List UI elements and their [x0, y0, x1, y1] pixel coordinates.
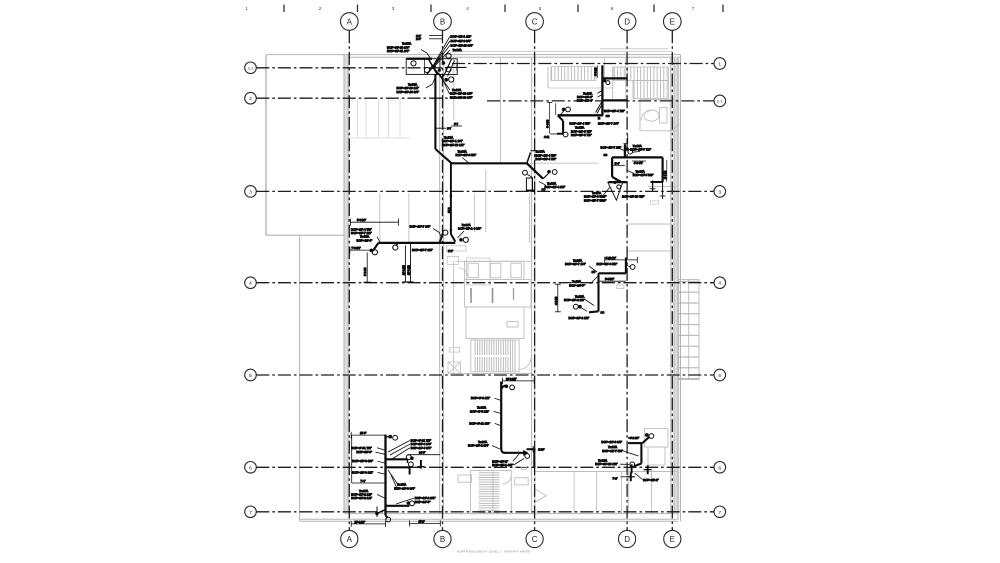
dim left vertical — [557, 284, 559, 312]
stair flight east outline — [613, 67, 669, 81]
dim 14-3 — [408, 454, 441, 456]
bubble 2 left — [245, 92, 257, 104]
svg-text:BOP=10'-2 1/2": BOP=10'-2 1/2" — [351, 496, 372, 500]
door arc — [668, 121, 678, 131]
svg-text:4'-11: 4'-11 — [544, 136, 550, 139]
bracket 6-4 — [612, 164, 625, 166]
partition right rows5 bottom — [535, 471, 678, 473]
bubble 6 right — [714, 462, 726, 474]
bubble 5 right — [714, 369, 726, 381]
svg-text:BOP=10'-7 1/4": BOP=10'-7 1/4" — [565, 262, 586, 266]
svg-text:6'-4 3/8: 6'-4 3/8 — [547, 119, 550, 128]
grid column D — [626, 30, 628, 530]
bottom circle — [630, 462, 635, 467]
leader twin a — [596, 102, 602, 113]
fixture circle m — [393, 245, 398, 250]
main manifold — [378, 242, 455, 244]
dim vertical — [366, 253, 368, 283]
dim 7-4 line — [352, 482, 386, 484]
svg-text:BOP=15'-5 5/8": BOP=15'-5 5/8" — [633, 173, 654, 177]
chase rect — [526, 178, 532, 190]
tag box — [617, 285, 624, 289]
drop diagonal — [527, 163, 543, 178]
bubble A bottom — [341, 530, 358, 547]
svg-text:BOP=10'-9": BOP=10'-9" — [356, 450, 372, 454]
dim left tick a — [555, 283, 561, 285]
stair wall under west flight — [548, 87, 613, 89]
wall column C line west — [531, 57, 533, 514]
top horizontal — [628, 442, 642, 444]
junction diag a — [427, 58, 440, 74]
room tag box upper — [446, 246, 466, 251]
fire escape outline — [679, 280, 700, 380]
leader 1 — [495, 398, 501, 400]
svg-text:BOP=8'-3 1/2": BOP=8'-3 1/2" — [471, 396, 490, 400]
bubble A top — [341, 13, 359, 31]
storage tag above — [450, 348, 460, 353]
svg-text:E: E — [670, 535, 675, 544]
svg-text:A: A — [347, 18, 353, 27]
stair center rail bottom — [492, 472, 494, 512]
fixture dot l — [370, 249, 374, 253]
bottom diag — [377, 510, 386, 514]
svg-text:4'-1 3/8: 4'-1 3/8 — [555, 296, 558, 305]
svg-text:BOP=12'-9 3/4": BOP=12'-9 3/4" — [451, 39, 472, 43]
leader mid — [627, 170, 635, 174]
door arc toilet — [641, 111, 651, 121]
core top wall — [455, 260, 531, 262]
riser vertical — [597, 273, 599, 311]
leader stack — [377, 237, 380, 243]
svg-text:BOP=10'-6 7/8": BOP=10'-6 7/8" — [571, 133, 592, 137]
svg-text:BOP=10'-10 1/2": BOP=10'-10 1/2" — [595, 462, 617, 466]
leader run — [462, 158, 468, 163]
svg-text:7'-3 1/4": 7'-3 1/4" — [352, 247, 361, 250]
partition rows3-4 b — [485, 170, 487, 232]
svg-text:6'-7: 6'-7 — [447, 128, 452, 131]
fixture circle — [606, 81, 610, 85]
svg-text:10'-2 1/2: 10'-2 1/2 — [402, 265, 405, 275]
grid row 2.1 right — [487, 100, 714, 102]
partition bottom room c — [621, 472, 623, 514]
wall left of northwest wing — [265, 55, 267, 236]
bubble 4 left — [245, 277, 257, 289]
leader R2 — [390, 444, 410, 455]
stair flight west outline — [551, 67, 596, 81]
grid row 2 left — [256, 97, 462, 99]
leader fan 2 — [433, 41, 450, 67]
riser vertical — [601, 65, 603, 116]
drop 1 foot — [402, 281, 408, 283]
fixture circle 2 — [563, 132, 568, 137]
fixture circle B — [443, 230, 448, 235]
bottom circle — [386, 517, 391, 522]
svg-text:BOP=12'-4": BOP=12'-4" — [577, 99, 593, 103]
ruler tick a — [283, 5, 285, 13]
plus tick 3h — [627, 476, 635, 478]
branch 1 tickdown — [407, 459, 409, 463]
svg-text:BOP=10'-1 3/4": BOP=10'-1 3/4" — [492, 463, 513, 467]
dim tick l — [349, 219, 351, 226]
dim 4-0 line — [632, 160, 646, 162]
svg-text:BOP=15'-7 1/2": BOP=15'-7 1/2" — [601, 145, 622, 149]
svg-text:7: 7 — [718, 510, 721, 516]
wall column E line west — [670, 57, 672, 514]
tick 6-7 — [451, 125, 462, 127]
svg-text:NORTH BUILDING A - LEVEL 1 - S: NORTH BUILDING A - LEVEL 1 - SANITARY WA… — [457, 550, 530, 554]
wall bottom outer band 2 — [300, 520, 679, 522]
partition bottom room a — [573, 472, 575, 514]
dim vertical — [596, 65, 598, 78]
partition closet d — [388, 99, 390, 138]
partition above manifold chase 2 — [408, 194, 410, 243]
svg-text:BOP=10'-10 1/4": BOP=10'-10 1/4" — [450, 95, 472, 99]
svg-text:7'-2": 7'-2" — [613, 477, 618, 480]
junction diag b — [429, 59, 438, 75]
fixture circle — [552, 170, 557, 175]
vent triangle — [608, 182, 623, 200]
leader twin b — [597, 103, 603, 114]
fixture circle 4 — [449, 77, 454, 82]
toilet room top right — [605, 57, 678, 131]
stair wall east side — [612, 67, 614, 100]
fixture dot c — [438, 69, 441, 72]
row 1.1 end tick — [456, 65, 458, 71]
leader fan 1 — [433, 37, 450, 67]
leader circle — [627, 266, 630, 267]
partition closet e — [399, 99, 401, 138]
leader m2 — [391, 475, 397, 488]
leader mid — [590, 277, 598, 285]
leader l2 — [622, 451, 639, 457]
leader R1 — [388, 441, 410, 453]
east wall gray fill band — [674, 57, 679, 514]
fixture dot — [626, 147, 629, 150]
fire escape rungs — [679, 280, 699, 379]
plus tick 2v — [647, 465, 649, 474]
riser vertical — [640, 443, 642, 463]
dim tick b — [533, 378, 535, 384]
bubble 2.1 right — [714, 95, 726, 107]
stub to C — [527, 448, 536, 450]
dim vertical long — [549, 102, 551, 133]
dim top tick a — [604, 257, 606, 263]
leader br a — [437, 72, 450, 90]
partition closet foot — [350, 137, 410, 139]
dim tick top — [547, 101, 552, 103]
stairwell treads — [474, 340, 518, 371]
leader a — [492, 446, 500, 450]
chase foot — [526, 190, 535, 192]
svg-text:7'-4": 7'-4" — [361, 480, 366, 483]
branch horizontal — [558, 114, 603, 116]
partition above manifold chase 1 — [379, 194, 381, 243]
svg-text:10'-3 1/2: 10'-3 1/2 — [407, 265, 410, 275]
top branch horizontal — [602, 77, 627, 79]
toilet room right of D rows5-6 outline — [645, 429, 669, 448]
svg-text:BOP=12'-10 3/4": BOP=12'-10 3/4" — [451, 44, 473, 48]
left riser — [611, 157, 613, 176]
dim left vertical — [351, 435, 353, 483]
wall column D partial top — [625, 57, 627, 100]
grid row 1.1 left — [256, 67, 445, 69]
riser vertical — [624, 144, 626, 157]
fixture tick m — [396, 243, 398, 246]
elevator lobby — [465, 280, 532, 308]
plus tick 3v — [630, 472, 632, 481]
leader a — [598, 91, 602, 94]
svg-text:C: C — [532, 535, 538, 544]
svg-text:4'-5 1/2: 4'-5 1/2 — [595, 67, 598, 76]
leader br — [635, 473, 643, 480]
bubble 3 right — [714, 186, 726, 198]
bottom dot — [375, 512, 379, 516]
top tick diag — [386, 436, 391, 438]
wall bottom of northwest wing — [266, 234, 348, 236]
right riser — [661, 157, 663, 182]
stair lower wall west — [547, 67, 549, 89]
leader R3 — [392, 448, 410, 459]
fixture dot low — [578, 305, 582, 309]
elevator bank outline — [465, 261, 525, 279]
svg-text:BOP=10'-0 5/8": BOP=10'-0 5/8" — [597, 262, 618, 266]
leader bot — [603, 187, 610, 196]
svg-text:3: 3 — [718, 189, 721, 195]
stack pipe vertical — [434, 74, 436, 149]
svg-text:2'-10": 2'-10" — [538, 449, 544, 452]
svg-text:8'-1 3/4: 8'-1 3/4 — [364, 267, 367, 276]
svg-text:B: B — [440, 18, 445, 27]
svg-text:7: 7 — [692, 6, 695, 11]
svg-text:4: 4 — [718, 281, 721, 287]
dim bot 2 ticka — [409, 520, 411, 526]
vent vertical from C1 — [450, 163, 452, 234]
fixture circle — [566, 107, 571, 112]
svg-text:C: C — [532, 18, 538, 27]
svg-text:BOP=15'-7 5/16": BOP=15'-7 5/16" — [584, 198, 606, 202]
left elbow — [373, 243, 379, 251]
svg-text:BOP=10'-2 1/8": BOP=10'-2 1/8" — [564, 298, 585, 302]
wall top outer — [266, 54, 681, 56]
C column stub — [533, 449, 535, 469]
top fixture dot — [388, 435, 392, 439]
fixture dot b — [444, 78, 448, 82]
cross b h — [660, 195, 666, 197]
row 1.1 end segment — [445, 66, 467, 68]
svg-text:6'-7: 6'-7 — [454, 123, 459, 126]
fixture circle l — [372, 250, 377, 255]
fixture circle — [510, 385, 515, 390]
interior partitions — [350, 57, 678, 514]
leader left — [421, 50, 431, 59]
ruler tick g — [722, 5, 724, 13]
bubble C top — [526, 13, 544, 31]
arrow fitting — [523, 450, 528, 456]
grid column B — [442, 30, 444, 530]
fixture dot — [562, 108, 566, 112]
grid row 5 — [256, 374, 714, 376]
bottom horizontal — [609, 181, 628, 183]
wall column B line east — [442, 57, 444, 514]
svg-text:2.1: 2.1 — [717, 100, 722, 104]
fixture dot r — [459, 238, 463, 242]
run horizontal — [504, 452, 525, 454]
svg-text:5: 5 — [539, 6, 542, 11]
fixture connector — [543, 174, 549, 179]
bottom elbow — [386, 515, 388, 518]
fixture dot — [547, 170, 551, 174]
leader 3 — [495, 423, 501, 425]
svg-text:1: 1 — [718, 62, 721, 68]
stub tick — [532, 446, 534, 452]
top stub foot — [624, 143, 628, 145]
svg-text:BOP=10'-7 3/8": BOP=10'-7 3/8" — [412, 248, 433, 252]
dim top — [605, 259, 638, 261]
partition vertical B-C upper — [453, 57, 455, 120]
bubble 7 right — [714, 506, 726, 518]
fixture circle top — [630, 265, 635, 270]
svg-text:BOP=10'-7": BOP=10'-7" — [569, 283, 585, 287]
wall column C line east — [534, 57, 536, 514]
svg-text:BOP=12'-1 1/2": BOP=12'-1 1/2" — [451, 35, 472, 39]
leader l3 — [620, 463, 629, 465]
leader b1 — [513, 454, 519, 461]
grid row 7 — [256, 511, 714, 513]
svg-text:E: E — [670, 18, 675, 27]
fire escape mid rail — [688, 280, 690, 380]
svg-text:BOP=8'-11 3/8": BOP=8'-11 3/8" — [469, 421, 490, 425]
dim bracket — [350, 249, 371, 251]
junction diag extra2 — [448, 61, 455, 77]
branch 3 — [386, 505, 410, 507]
branch diagonal — [558, 115, 563, 121]
leader mid — [433, 229, 441, 238]
storage room X a — [448, 362, 461, 374]
wall left lower exterior — [299, 235, 301, 521]
fixture dot — [505, 385, 509, 389]
dim top — [351, 434, 385, 436]
leader dr — [539, 182, 546, 186]
grid row 3 — [256, 190, 714, 192]
bottom tick — [376, 507, 378, 518]
bottom diagonal — [634, 464, 641, 467]
leader r — [458, 231, 465, 238]
dot on pipe — [613, 181, 616, 184]
fixture circle — [525, 454, 530, 459]
partition closet c — [378, 99, 380, 138]
svg-text:7: 7 — [249, 510, 252, 516]
fixture circle 2 — [424, 67, 429, 72]
svg-text:8'-8 5/8": 8'-8 5/8" — [605, 278, 614, 281]
main riser vertical — [384, 435, 386, 516]
toilet tank — [660, 108, 668, 124]
wall top parapet line far right — [600, 48, 668, 50]
core bottom wall — [448, 373, 533, 375]
bubble B top — [434, 13, 452, 31]
svg-text:1: 1 — [245, 6, 248, 11]
ruler tick b — [357, 5, 359, 13]
svg-text:CO: CO — [604, 154, 608, 157]
dim line — [503, 380, 535, 382]
svg-text:6: 6 — [718, 465, 721, 471]
vent dim arrow down — [449, 230, 452, 234]
svg-text:BOP=10'-7 1/4": BOP=10'-7 1/4" — [598, 121, 619, 125]
svg-text:BOP=11'-2": BOP=11'-2" — [643, 478, 659, 482]
stair outline bottom — [471, 471, 512, 514]
svg-text:D: D — [624, 18, 630, 27]
leader br b — [441, 76, 450, 94]
bottom fixture square — [598, 117, 601, 120]
svg-text:BOP=10'-3 1/2": BOP=10'-3 1/2" — [569, 316, 590, 320]
drop 2 foot — [408, 281, 414, 283]
ruler tick c — [430, 5, 432, 13]
stair flight west treads — [552, 67, 597, 80]
dim top tick a — [350, 432, 352, 439]
svg-text:10'-4 1/8": 10'-4 1/8" — [355, 521, 366, 524]
svg-text:BOP=11'-7 5/8": BOP=11'-7 5/8" — [602, 449, 623, 453]
svg-text:16'-2: 16'-2 — [448, 207, 451, 213]
dim vertical 2 — [555, 103, 557, 115]
svg-text:7x-DIA: 7x-DIA — [453, 48, 462, 52]
partition bottom room d — [651, 472, 653, 514]
svg-text:B: B — [440, 535, 445, 544]
tag box — [521, 467, 527, 469]
svg-text:BOP=10'-2 3/4": BOP=10'-2 3/4" — [468, 444, 489, 448]
fixture circle low — [573, 304, 578, 309]
dim tick a — [429, 35, 443, 37]
leader low — [582, 308, 588, 311]
dim tick r — [397, 219, 399, 226]
stairwell outline — [471, 340, 519, 372]
elevator door jamb 3 — [513, 288, 515, 300]
riser to dim — [625, 258, 627, 274]
svg-text:A: A — [347, 535, 353, 544]
top diagonal — [642, 437, 649, 443]
leader right — [632, 151, 640, 154]
svg-text:D: D — [624, 535, 630, 544]
bottom core stair — [458, 471, 546, 514]
svg-text:6: 6 — [611, 6, 614, 11]
light box label — [507, 322, 518, 328]
leader R4 — [396, 498, 414, 504]
bubble 3 left — [245, 186, 257, 198]
bubble 1.1 left — [245, 62, 257, 74]
wall top parapet line right — [452, 50, 672, 52]
wall column D partial bottom — [628, 468, 630, 514]
svg-text:5'-0 1/8": 5'-0 1/8" — [357, 219, 366, 222]
partition rows3-4 a — [474, 194, 476, 233]
top dot — [645, 433, 649, 437]
fixture circle r — [463, 237, 468, 242]
stair flight east lower outline — [633, 81, 669, 99]
leader fan 4 — [434, 50, 450, 68]
toilet rooms above core — [446, 246, 490, 285]
leader b — [598, 95, 603, 98]
leader left — [618, 148, 624, 151]
grid column C — [534, 30, 536, 530]
svg-text:=6'-2 3/8": =6'-2 3/8" — [629, 437, 640, 440]
stair flight east lower treads — [634, 81, 669, 99]
fixture circle — [628, 149, 633, 154]
partition right rows2-3 a — [648, 185, 678, 187]
fixture circle 3 — [446, 67, 451, 72]
branch 3 dot — [407, 501, 411, 505]
leader m1 — [388, 470, 398, 485]
branch 1 — [386, 458, 408, 460]
room tag box D-E — [650, 201, 658, 204]
end jog diagonal — [527, 153, 531, 164]
cross tick horizontal — [417, 466, 424, 468]
